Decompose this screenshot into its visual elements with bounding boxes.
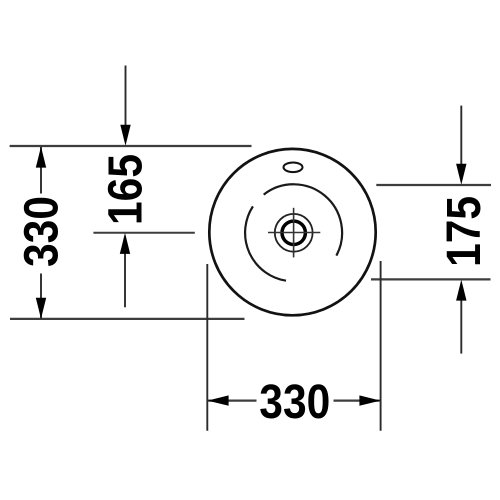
basin inner bowl arc upper (264, 184, 342, 255)
dimension 330 left: line upper segment (40, 147, 42, 194)
dimension 175 right: lower extension with up arrow (460, 298, 462, 354)
drain crosshair vertical (293, 208, 295, 258)
tap hole ellipse (284, 163, 303, 173)
dimension 330 bottom: line left segment (208, 400, 257, 402)
svg-text:330: 330 (16, 196, 69, 267)
dimension 330 left: line lower segment (40, 274, 42, 319)
basin outer rim circle (209, 149, 375, 315)
drain crosshair horizontal (268, 232, 320, 234)
dimension 165: lower extension with up arrow (124, 251, 126, 307)
dimension 175 right: upper extension with down arrow (460, 106, 462, 165)
middle tick line (drain axis) (93, 232, 194, 234)
dimension 330 bottom: left extension line (206, 264, 208, 431)
dimension 330 bottom: right arrow (359, 395, 380, 405)
drain inner circle (thick) (282, 221, 305, 244)
svg-text:175: 175 (438, 196, 491, 267)
bottom reference line (10, 318, 245, 320)
dimension 175 right: top tick line (376, 184, 491, 186)
dimension 330 bottom: left arrow (208, 395, 229, 405)
svg-text:165: 165 (100, 154, 153, 225)
dimension 330 bottom: right extension line (380, 261, 382, 431)
basin inner bowl arc lower-left (245, 206, 286, 280)
drain outer circle (275, 214, 313, 252)
svg-text:330: 330 (259, 376, 330, 429)
dimension 165: upper extension with down arrow (125, 66, 127, 128)
dimension 330 left: down arrow (36, 298, 46, 319)
dimension 330 left: up arrow (36, 147, 46, 168)
dimension 175 right: bottom tick line (371, 278, 491, 280)
dimension 330 bottom: line right segment (334, 400, 381, 402)
top reference line (10, 145, 252, 147)
